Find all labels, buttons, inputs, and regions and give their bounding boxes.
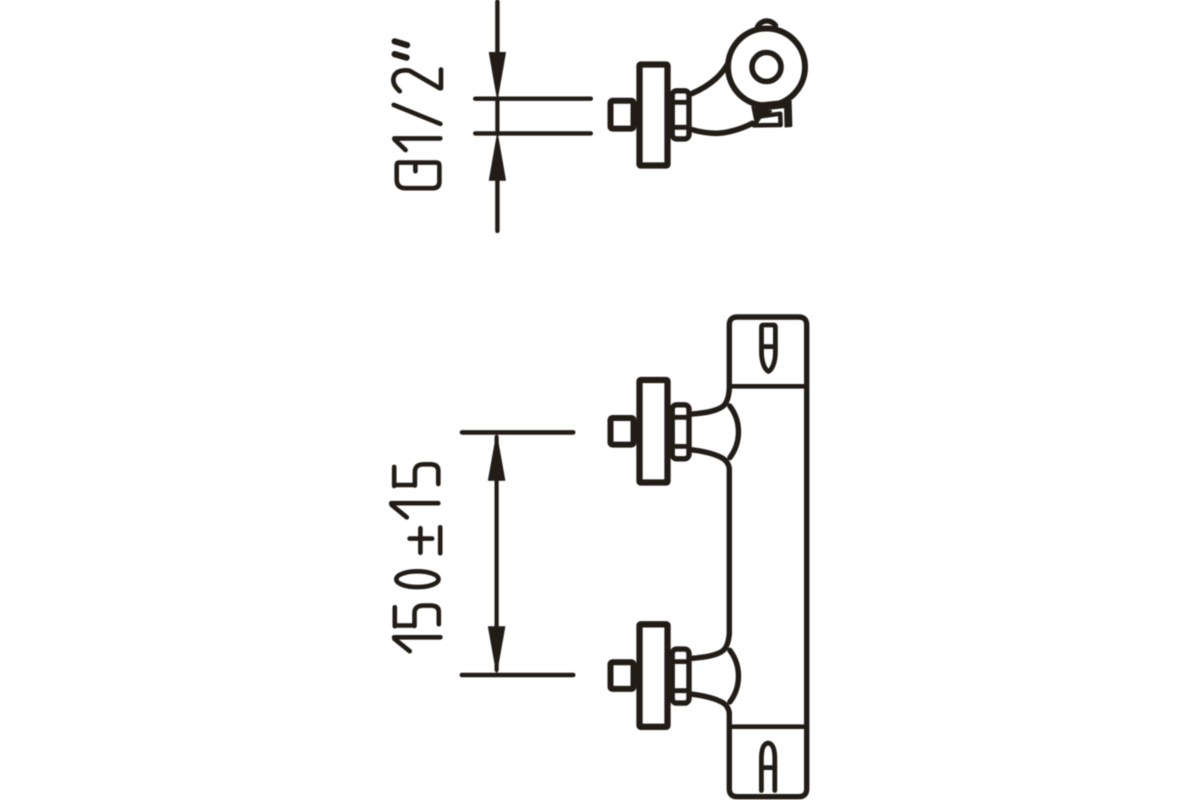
dimension extension line upper [462, 430, 573, 435]
wall flange plate (top view) [640, 65, 668, 166]
wall flange plate [640, 380, 668, 483]
glyph / [394, 105, 441, 124]
glyph 2 [393, 70, 439, 91]
round valve body outer circle [728, 29, 805, 106]
trumpet top curve [690, 390, 729, 414]
inner circle (cartridge) [752, 53, 781, 82]
trumpet bottom curve [690, 450, 729, 469]
glyph 5 (of 150) [392, 607, 397, 626]
top slot (screw slot with bullet tip) [762, 325, 776, 371]
inlet stub [611, 418, 634, 445]
glyph G [397, 163, 440, 189]
dimension line vertical, top segment with down arrow [489, 2, 505, 99]
glyph 1 [394, 136, 440, 141]
dimension line vertical, bottom segment with up arrow [489, 134, 505, 231]
small bump on top of circle [758, 21, 776, 27]
lower fitting group (copy) [611, 624, 739, 727]
bottom arch mark (A-shaped) [761, 743, 774, 791]
label 150 +/-15 (rotated, drawn as CAD-style strokes) [391, 464, 440, 651]
label G1/2" (rotated, drawn as CAD-style strokes) [393, 41, 441, 188]
body left edge middle segment [727, 469, 732, 634]
main body rounded rectangle (top edge, right edge, bottom edge) [729, 317, 806, 797]
thick bar under circle (lever) [756, 101, 787, 111]
glyph " [395, 41, 408, 45]
body divider line upper [729, 384, 806, 389]
dimension extension line lower [462, 673, 573, 678]
trumpet bell arc [730, 406, 739, 458]
inlet stub (top view) [611, 101, 634, 129]
upper fitting group [611, 380, 739, 483]
connection nut [672, 405, 689, 459]
glyph 5 (of 15) [392, 467, 397, 486]
glyph +/- [410, 536, 433, 541]
trumpet top curve (nut to round body) [692, 65, 727, 94]
dimension line vertical, middle thin segment [495, 99, 499, 134]
extension line upper (G1/2 top) [475, 96, 591, 100]
small outlet rectangle under circle [754, 114, 781, 126]
connection nut (top view) [672, 91, 689, 139]
glyph 1 (of 15) [391, 501, 438, 506]
body divider line lower [729, 724, 806, 729]
sweeping lower outline curve [692, 123, 753, 133]
glyph 0 (of 150) [396, 571, 438, 587]
glyph 1 (of 150) [394, 635, 440, 640]
dimension vertical line with arrows [488, 434, 504, 673]
extension line lower (G1/2 bottom) [475, 131, 591, 135]
lever end column under circle [785, 101, 792, 127]
wedge under circle [753, 107, 771, 119]
